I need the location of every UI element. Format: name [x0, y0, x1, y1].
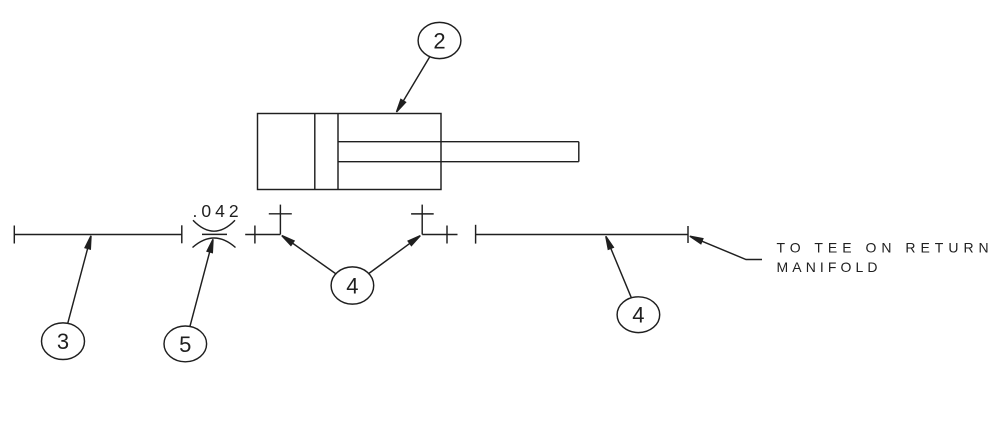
balloon 5 [164, 326, 207, 362]
svg-text:3: 3 [57, 329, 69, 354]
arrowhead of balloon 2 leader [397, 100, 406, 113]
wire: orifice flow line [202, 233, 227, 235]
arrowhead balloon 4 left [282, 236, 294, 246]
tick: right end of hose 1 [181, 225, 183, 243]
balloon 2 [418, 22, 461, 58]
piston rod end [578, 142, 580, 162]
svg-text:.042: .042 [193, 201, 243, 221]
balloon 4b [617, 297, 660, 333]
svg-text:2: 2 [433, 28, 445, 53]
arrowhead balloon 4b [606, 236, 614, 249]
leader line balloon 3 [63, 240, 90, 341]
arrowhead balloon 4 right [408, 236, 420, 246]
svg-text:TO TEE ON RETURN: TO TEE ON RETURN [777, 240, 994, 256]
arrowhead of note leader [690, 236, 703, 244]
riser right tick [411, 213, 434, 215]
svg-text:4: 4 [632, 303, 644, 328]
riser fitting left (port A) [279, 205, 281, 235]
cylinder cap divider line [314, 114, 316, 190]
balloon 3 [42, 323, 85, 360]
tick: left end of hose 2 [475, 225, 477, 244]
piston rod bottom line [338, 161, 579, 163]
fitting cross junction right [446, 226, 448, 244]
tick: right end of hose 2 [687, 226, 689, 243]
leader line to cylinder (balloon 2) [399, 41, 440, 110]
svg-text:MANIFOLD: MANIFOLD [777, 259, 882, 275]
wire: hose segment 2 (item 4) [476, 234, 688, 236]
tick: left end of hose 1 [13, 226, 15, 244]
arrowhead balloon 5 [207, 239, 213, 252]
svg-text:4: 4 [346, 273, 358, 298]
wire: hose segment 1 (item 3) [14, 234, 182, 236]
cylinder head divider line [337, 114, 339, 190]
arrowhead balloon 3 [85, 236, 91, 249]
leader line balloon 4b [607, 239, 638, 315]
leader line balloon 5 [185, 244, 212, 344]
leader line balloon 4 right [352, 239, 416, 286]
leader line balloon 4 left [286, 238, 353, 285]
orifice upper arc (item 5) [193, 220, 235, 231]
wire: cross arm to riser [245, 234, 280, 236]
svg-text:5: 5 [179, 332, 191, 357]
riser fitting right (port B) [421, 205, 423, 235]
leader line to note text [692, 237, 762, 259]
wire: from riser right [422, 234, 457, 236]
balloon 4 [331, 267, 374, 304]
piston rod top line [338, 141, 579, 143]
orifice lower arc [193, 238, 236, 248]
riser left tick [269, 213, 292, 215]
fitting cross junction left [254, 226, 256, 244]
cylinder C1 body (item 2) [258, 114, 442, 190]
